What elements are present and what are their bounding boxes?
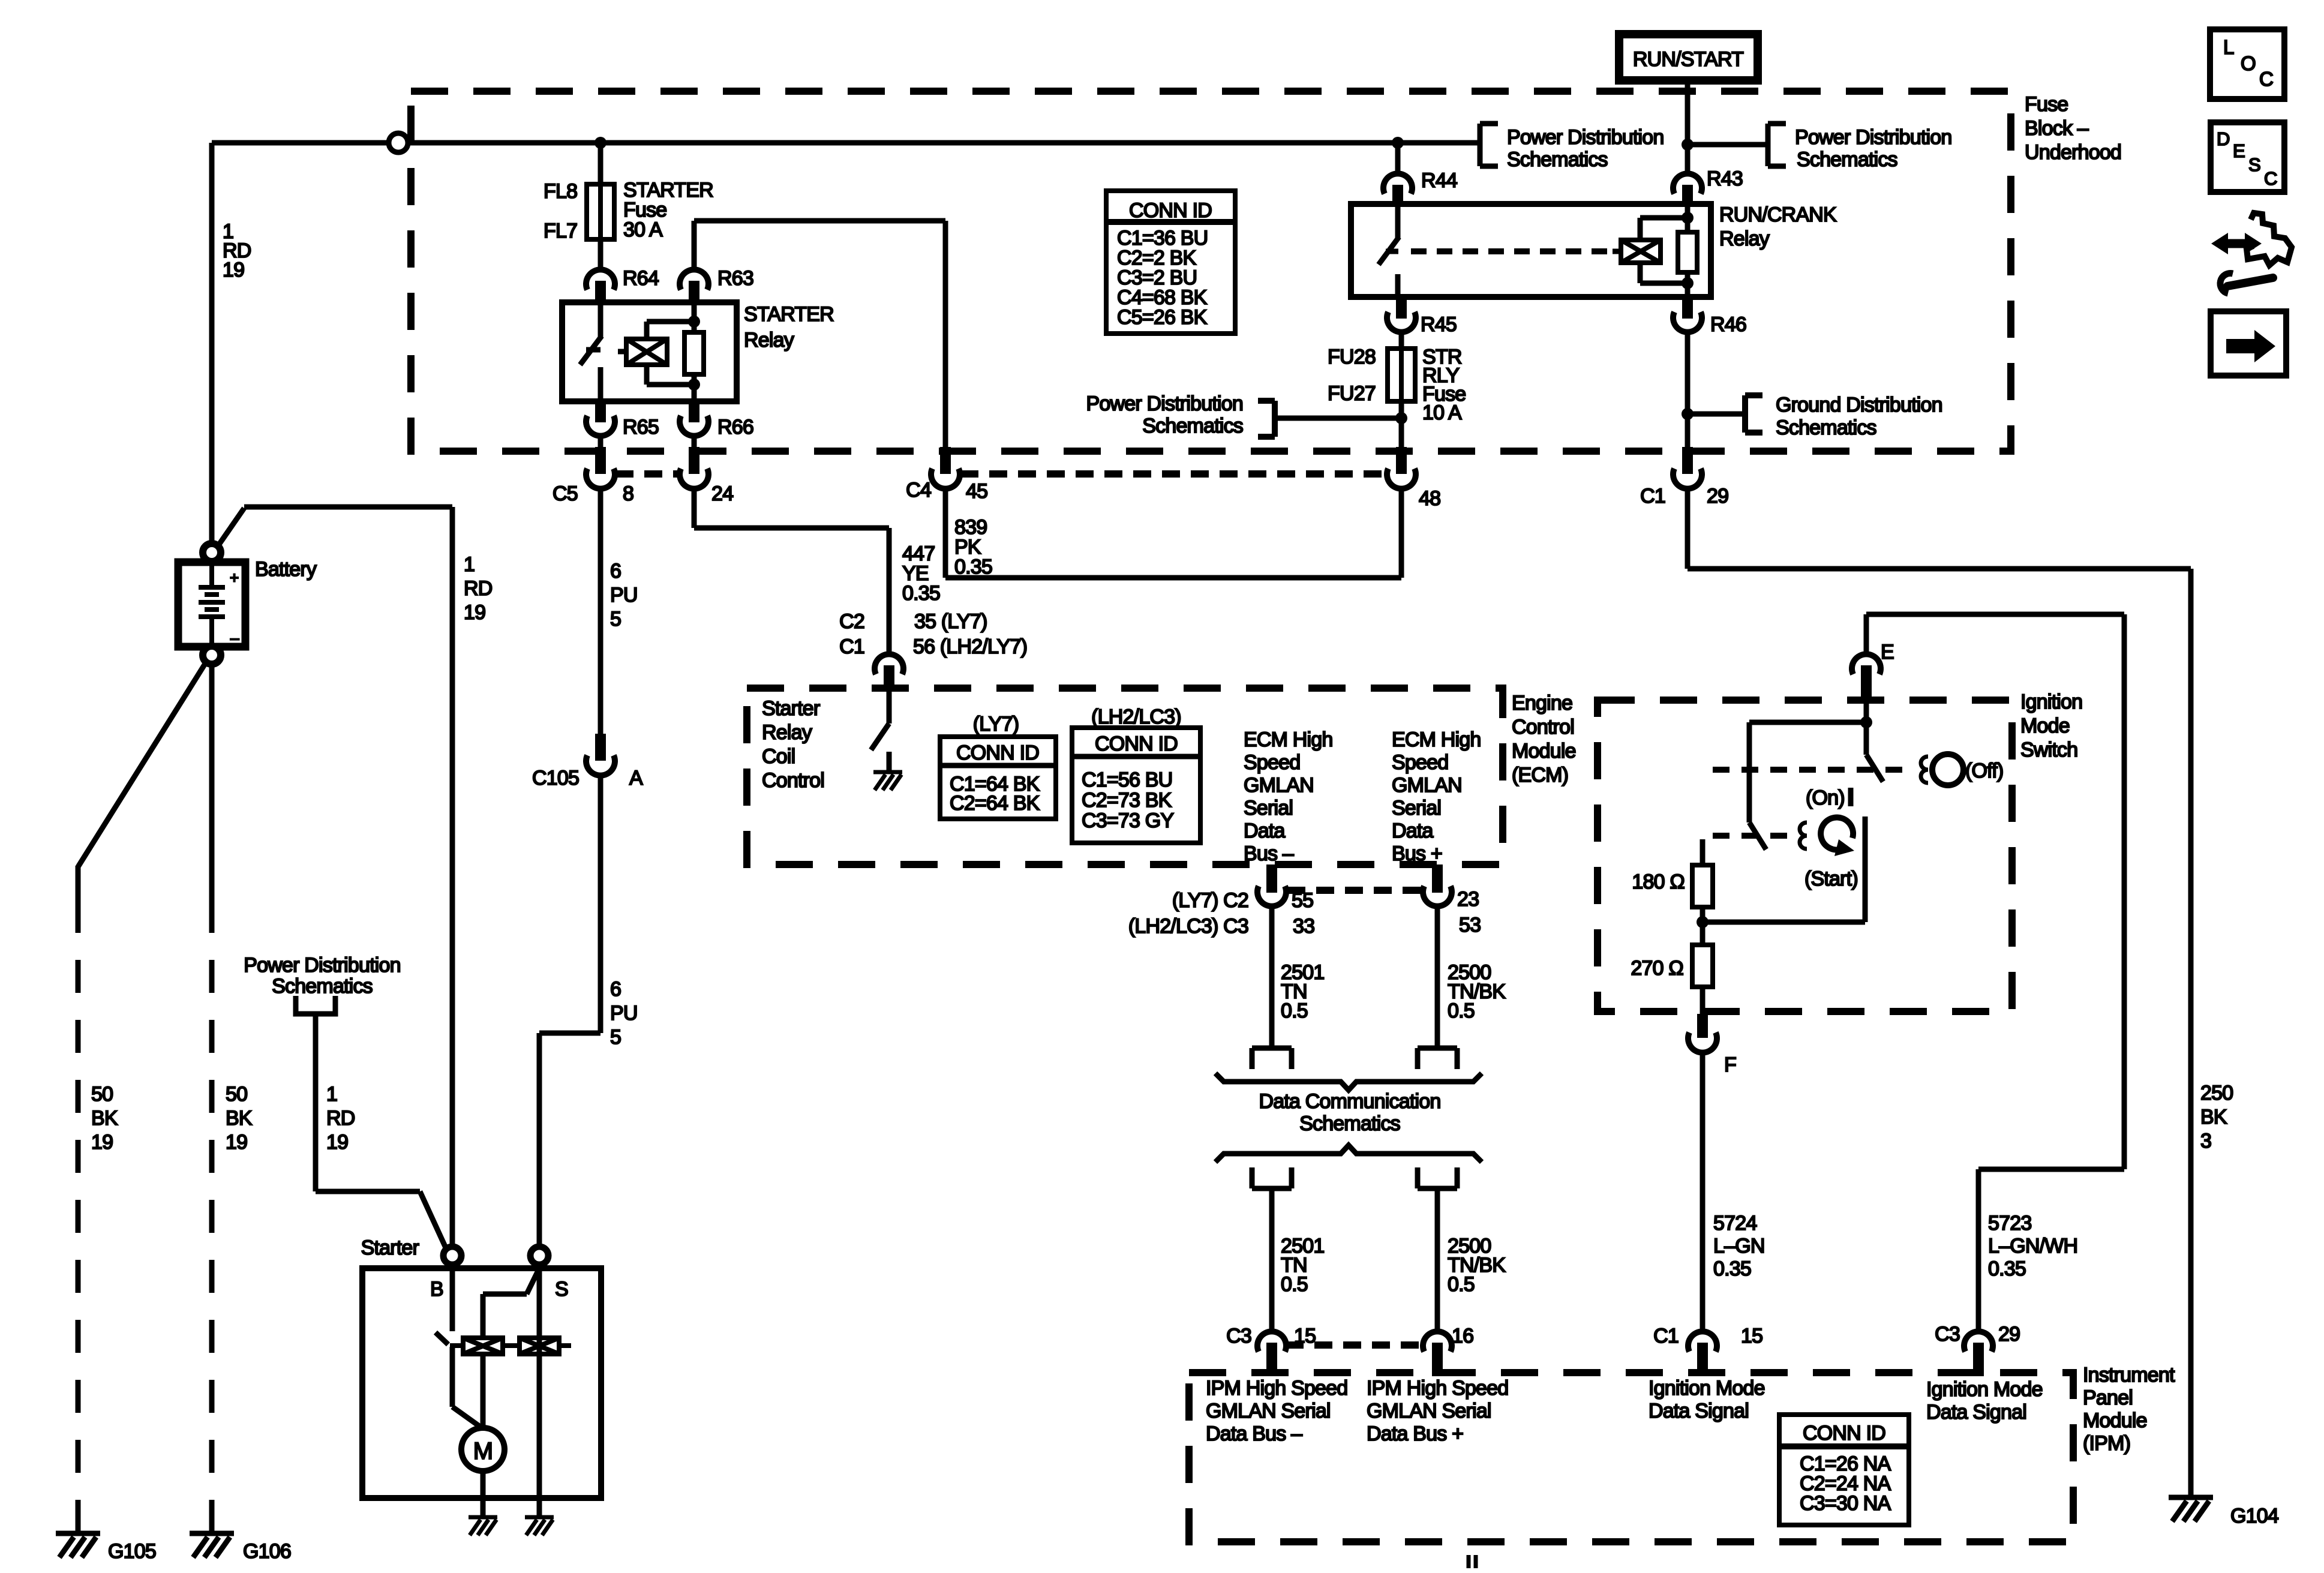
svg-text:33: 33 (1293, 915, 1314, 938)
svg-text:RD: RD (464, 577, 493, 600)
svg-text:R64: R64 (623, 267, 659, 290)
svg-text:GMLAN Serial: GMLAN Serial (1367, 1400, 1491, 1422)
svg-text:23: 23 (1457, 888, 1479, 911)
svg-text:BK: BK (91, 1107, 118, 1130)
svg-text:Module: Module (1512, 740, 1576, 763)
svg-text:270 Ω: 270 Ω (1631, 957, 1683, 980)
svg-text:1: 1 (326, 1083, 337, 1106)
svg-text:Coil: Coil (762, 745, 795, 768)
svg-text:FL8: FL8 (544, 180, 577, 203)
svg-text:(ECM): (ECM) (1512, 764, 1568, 786)
svg-text:L: L (2223, 36, 2234, 58)
svg-text:19: 19 (326, 1131, 348, 1154)
svg-text:C105: C105 (532, 767, 579, 789)
svg-text:C5: C5 (553, 482, 578, 505)
svg-text:5724: 5724 (1713, 1212, 1756, 1235)
svg-text:R44: R44 (1421, 169, 1457, 192)
svg-text:53: 53 (1459, 914, 1481, 936)
svg-text:Ignition Mode: Ignition Mode (1649, 1377, 1765, 1400)
svg-text:G105: G105 (108, 1540, 156, 1563)
svg-text:0.35: 0.35 (1713, 1257, 1751, 1280)
svg-text:Data Bus +: Data Bus + (1367, 1422, 1463, 1445)
svg-text:Instrument: Instrument (2083, 1364, 2175, 1386)
svg-text:15: 15 (1741, 1325, 1762, 1347)
svg-text:Fuse: Fuse (2025, 93, 2068, 116)
svg-text:–: – (230, 629, 239, 647)
svg-text:C1: C1 (1640, 485, 1665, 508)
svg-text:48: 48 (1419, 487, 1440, 510)
svg-text:5723: 5723 (1988, 1212, 2031, 1235)
svg-text:Data Bus –: Data Bus – (1206, 1422, 1302, 1445)
svg-text:(Start): (Start) (1804, 867, 1858, 890)
svg-text:Data: Data (1244, 819, 1286, 842)
svg-text:29: 29 (1998, 1323, 2020, 1346)
svg-text:0.5: 0.5 (1448, 999, 1475, 1022)
svg-text:C: C (2259, 68, 2273, 90)
svg-text:250: 250 (2200, 1082, 2233, 1104)
svg-text:30 A: 30 A (623, 218, 663, 241)
svg-text:Power Distribution: Power Distribution (244, 954, 401, 977)
svg-text:G104: G104 (2230, 1505, 2278, 1527)
svg-text:R46: R46 (1710, 313, 1746, 336)
svg-text:0.5: 0.5 (1281, 999, 1308, 1022)
svg-text:STARTER: STARTER (744, 303, 834, 326)
svg-text:Control: Control (762, 769, 824, 792)
svg-text:Relay: Relay (762, 721, 812, 744)
svg-text:GMLAN Serial: GMLAN Serial (1206, 1400, 1331, 1422)
svg-text:Data: Data (1392, 819, 1434, 842)
svg-text:F: F (1724, 1053, 1736, 1076)
svg-text:IPM High Speed: IPM High Speed (1206, 1377, 1347, 1400)
svg-text:Speed: Speed (1244, 751, 1300, 774)
svg-text:Serial: Serial (1392, 797, 1441, 819)
svg-text:FU27: FU27 (1328, 382, 1376, 405)
svg-text:Power Distribution: Power Distribution (1507, 126, 1664, 149)
svg-text:C2=73 BK: C2=73 BK (1082, 789, 1172, 812)
svg-text:5: 5 (610, 608, 621, 631)
svg-text:(Off): (Off) (1965, 760, 2003, 782)
svg-text:19: 19 (91, 1131, 113, 1154)
svg-text:3: 3 (2200, 1130, 2211, 1152)
svg-text:GMLAN: GMLAN (1244, 774, 1314, 797)
svg-text:B: B (430, 1278, 443, 1301)
svg-text:C3: C3 (1935, 1323, 1960, 1346)
svg-text:Relay: Relay (744, 329, 794, 352)
svg-text:BK: BK (226, 1107, 253, 1130)
svg-text:Speed: Speed (1392, 751, 1448, 774)
svg-text:16: 16 (1452, 1325, 1473, 1347)
svg-text:Ground Distribution: Ground Distribution (1776, 394, 1942, 416)
svg-text:G106: G106 (243, 1540, 291, 1563)
svg-text:6: 6 (610, 978, 621, 1001)
svg-text:C1: C1 (1653, 1325, 1679, 1347)
svg-text:C2: C2 (839, 610, 864, 633)
svg-text:Battery: Battery (255, 558, 317, 581)
svg-text:Module: Module (2083, 1409, 2147, 1432)
svg-text:Schematics: Schematics (1776, 416, 1876, 439)
svg-text:Data Signal: Data Signal (1649, 1400, 1749, 1422)
svg-text:S: S (2248, 154, 2260, 175)
svg-text:19: 19 (223, 259, 244, 281)
svg-text:CONN ID: CONN ID (1129, 199, 1212, 222)
svg-text:R43: R43 (1707, 167, 1743, 190)
svg-text:Switch: Switch (2020, 739, 2077, 761)
svg-text:CONN ID: CONN ID (1803, 1422, 1885, 1445)
svg-text:5: 5 (610, 1026, 621, 1049)
svg-text:Block –: Block – (2025, 117, 2089, 140)
svg-text:19: 19 (464, 601, 485, 624)
svg-text:15: 15 (1294, 1325, 1316, 1347)
svg-text:55: 55 (1292, 889, 1313, 912)
svg-text:19: 19 (226, 1131, 247, 1154)
svg-text:A: A (629, 767, 643, 789)
svg-text:O: O (2241, 52, 2256, 74)
svg-text:180 Ω: 180 Ω (1632, 870, 1685, 893)
svg-text:10 A: 10 A (1422, 401, 1462, 424)
svg-text:Schematics: Schematics (1507, 148, 1608, 171)
svg-text:(LY7): (LY7) (973, 713, 1019, 736)
svg-text:Starter: Starter (762, 697, 820, 720)
svg-text:45: 45 (966, 480, 987, 503)
svg-text:0.35: 0.35 (902, 582, 940, 605)
svg-text:RUN/START: RUN/START (1633, 48, 1743, 71)
svg-text:C1=56 BU: C1=56 BU (1082, 769, 1172, 791)
svg-text:0.5: 0.5 (1281, 1273, 1308, 1296)
svg-text:Schematics: Schematics (1797, 148, 1897, 171)
svg-text:R66: R66 (717, 416, 753, 439)
svg-text:Panel: Panel (2083, 1386, 2133, 1409)
svg-text:Data Communication: Data Communication (1259, 1090, 1440, 1113)
svg-text:R63: R63 (717, 267, 753, 290)
svg-text:C1: C1 (839, 635, 864, 658)
svg-text:C3=73 GY: C3=73 GY (1082, 809, 1173, 832)
svg-text:Engine: Engine (1512, 692, 1572, 715)
svg-text:Schematics: Schematics (272, 975, 373, 998)
svg-text:Schematics: Schematics (1299, 1112, 1400, 1135)
svg-text:PU: PU (610, 584, 638, 607)
svg-text:(On): (On) (1806, 786, 1845, 809)
svg-text:CONN ID: CONN ID (956, 742, 1039, 764)
svg-text:+: + (230, 569, 238, 587)
svg-text:Ignition Mode: Ignition Mode (1926, 1378, 2043, 1401)
svg-text:0.35: 0.35 (954, 556, 992, 578)
svg-text:(IPM): (IPM) (2083, 1432, 2130, 1455)
svg-text:0.5: 0.5 (1448, 1273, 1475, 1296)
svg-text:RUN/CRANK: RUN/CRANK (1719, 203, 1837, 226)
svg-text:Bus –: Bus – (1244, 842, 1294, 865)
svg-text:Control: Control (1512, 716, 1574, 739)
svg-text:R65: R65 (623, 416, 659, 439)
svg-text:Underhood: Underhood (2025, 141, 2121, 164)
svg-text:M: M (473, 1438, 493, 1464)
svg-text:PU: PU (610, 1002, 638, 1025)
svg-text:(LH2/LC3) C3: (LH2/LC3) C3 (1128, 915, 1248, 938)
svg-text:24: 24 (711, 482, 733, 505)
svg-text:35 (LY7): 35 (LY7) (914, 610, 987, 633)
svg-text:CONN ID: CONN ID (1095, 733, 1178, 755)
svg-text:50: 50 (226, 1083, 247, 1106)
svg-text:C4: C4 (906, 479, 931, 502)
svg-text:Bus +: Bus + (1392, 842, 1442, 865)
svg-text:1: 1 (464, 553, 475, 576)
svg-text:R45: R45 (1421, 313, 1457, 336)
svg-text:E: E (2233, 140, 2245, 161)
svg-text:Schematics: Schematics (1142, 415, 1243, 437)
svg-text:Mode: Mode (2020, 715, 2070, 737)
svg-text:RD: RD (326, 1107, 355, 1130)
svg-text:6: 6 (610, 560, 621, 583)
svg-text:Serial: Serial (1244, 797, 1293, 819)
svg-text:Starter: Starter (361, 1236, 419, 1259)
svg-text:FL7: FL7 (544, 220, 577, 242)
svg-text:S: S (555, 1278, 568, 1301)
svg-text:8: 8 (623, 482, 633, 505)
svg-text:56 (LH2/LY7): 56 (LH2/LY7) (913, 635, 1027, 658)
svg-text:ECM High: ECM High (1244, 728, 1333, 751)
svg-text:L–GN/WH: L–GN/WH (1988, 1235, 2077, 1257)
svg-text:Ignition: Ignition (2020, 691, 2082, 713)
svg-text:Data Signal: Data Signal (1926, 1401, 2026, 1424)
svg-text:ECM High: ECM High (1392, 728, 1481, 751)
svg-text:C2=64 BK: C2=64 BK (950, 792, 1040, 815)
svg-text:C3: C3 (1226, 1325, 1251, 1347)
svg-text:L–GN: L–GN (1713, 1235, 1765, 1257)
svg-text:BK: BK (2200, 1106, 2227, 1128)
svg-text:(LH2/LC3): (LH2/LC3) (1091, 706, 1181, 728)
svg-text:C3=30 NA: C3=30 NA (1800, 1492, 1891, 1515)
svg-text:0.35: 0.35 (1988, 1257, 2026, 1280)
svg-text:D: D (2217, 128, 2230, 149)
svg-text:50: 50 (91, 1083, 113, 1106)
svg-text:GMLAN: GMLAN (1392, 774, 1462, 797)
svg-text:IPM High Speed: IPM High Speed (1367, 1377, 1508, 1400)
svg-text:C: C (2264, 168, 2277, 189)
svg-text:FU28: FU28 (1328, 346, 1376, 368)
svg-text:Relay: Relay (1719, 227, 1770, 250)
svg-text:E: E (1881, 641, 1894, 664)
svg-text:(LY7) C2: (LY7) C2 (1172, 889, 1248, 912)
svg-text:29: 29 (1707, 485, 1728, 508)
svg-text:C5=26 BK: C5=26 BK (1117, 306, 1208, 329)
svg-text:Power Distribution: Power Distribution (1795, 126, 1952, 149)
svg-text:Power Distribution: Power Distribution (1086, 392, 1244, 415)
